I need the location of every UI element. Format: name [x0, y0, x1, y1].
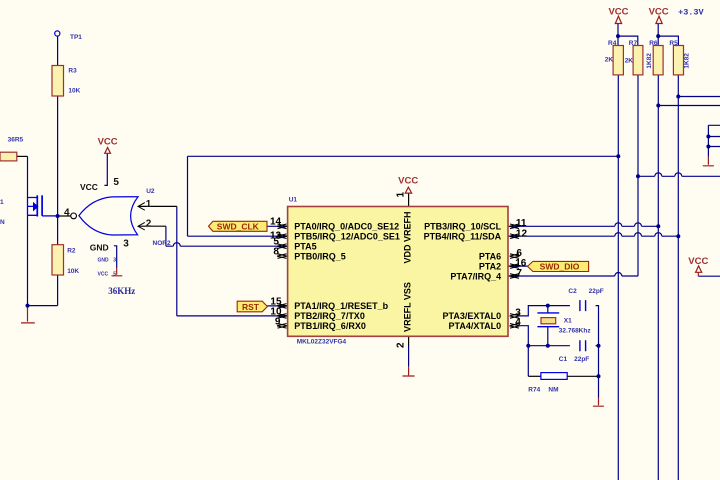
svg-text:PTB2/IRQ_7/TX0: PTB2/IRQ_7/TX0 — [294, 311, 365, 321]
svg-text:PTB1/IRQ_6/RX0: PTB1/IRQ_6/RX0 — [294, 321, 366, 331]
svg-text:RST: RST — [242, 302, 260, 312]
svg-text:C2: C2 — [568, 288, 577, 295]
svg-text:PTB5/IRQ_12/ADC0_SE1: PTB5/IRQ_12/ADC0_SE1 — [294, 232, 400, 242]
svg-text:PTA1/IRQ_1/RESET_b: PTA1/IRQ_1/RESET_b — [294, 301, 388, 311]
svg-text:1K82: 1K82 — [646, 53, 653, 69]
svg-text:PTA5: PTA5 — [294, 242, 316, 252]
svg-text:VCC: VCC — [649, 6, 669, 17]
svg-text:2: 2 — [146, 219, 152, 230]
svg-text:VCC: VCC — [688, 256, 708, 267]
svg-text:GND: GND — [90, 242, 109, 252]
svg-text:22pF: 22pF — [589, 288, 604, 295]
svg-text:1: 1 — [396, 192, 407, 198]
svg-text:7: 7 — [516, 268, 522, 279]
svg-text:PTA3/EXTAL0: PTA3/EXTAL0 — [443, 311, 502, 321]
svg-text:NM: NM — [548, 387, 558, 394]
svg-text:+3.3V: +3.3V — [678, 7, 704, 17]
svg-text:PTA0/IRQ_0/ADC0_SE12: PTA0/IRQ_0/ADC0_SE12 — [294, 222, 399, 232]
svg-text:R74: R74 — [528, 387, 540, 394]
svg-text:SWD_CLK: SWD_CLK — [217, 221, 260, 231]
svg-text:11: 11 — [516, 218, 527, 229]
svg-text:5: 5 — [113, 177, 119, 188]
svg-text:VCC: VCC — [98, 272, 109, 278]
svg-text:VDD VREFH: VDD VREFH — [403, 211, 413, 263]
svg-text:14: 14 — [270, 216, 282, 227]
svg-text:VCC: VCC — [80, 182, 98, 192]
svg-text:22pF: 22pF — [574, 356, 589, 363]
svg-text:2K: 2K — [605, 56, 614, 63]
svg-text:5: 5 — [113, 272, 116, 278]
svg-text:VCC: VCC — [608, 6, 628, 17]
svg-text:NOR2: NOR2 — [153, 240, 171, 247]
svg-text:R7: R7 — [629, 40, 638, 47]
svg-text:R2: R2 — [67, 248, 76, 255]
svg-text:SWD_DIO: SWD_DIO — [540, 262, 580, 272]
svg-text:4: 4 — [64, 208, 70, 219]
svg-text:12: 12 — [516, 228, 528, 239]
svg-text:R5: R5 — [669, 40, 678, 47]
svg-text:R4: R4 — [608, 40, 617, 47]
svg-text:10K: 10K — [67, 268, 79, 275]
svg-text:4: 4 — [515, 317, 521, 328]
svg-text:X1: X1 — [564, 317, 572, 324]
svg-text:1: 1 — [146, 199, 152, 210]
svg-text:3: 3 — [123, 238, 129, 249]
svg-text:N: N — [0, 219, 5, 226]
svg-text:PTB4/IRQ_11/SDA: PTB4/IRQ_11/SDA — [424, 232, 502, 242]
svg-text:PTA6: PTA6 — [479, 251, 501, 261]
svg-text:10K: 10K — [68, 88, 80, 95]
svg-text:VREFL VSS: VREFL VSS — [403, 282, 413, 332]
svg-text:VCC: VCC — [98, 137, 118, 148]
svg-text:2K: 2K — [625, 57, 634, 64]
svg-text:MKL02Z32VFG4: MKL02Z32VFG4 — [297, 339, 347, 346]
svg-text:PTA2: PTA2 — [479, 261, 501, 271]
svg-text:3: 3 — [113, 257, 116, 263]
svg-text:VCC: VCC — [398, 176, 418, 187]
svg-text:TP1: TP1 — [70, 34, 82, 41]
svg-text:8: 8 — [273, 247, 279, 258]
svg-text:U1: U1 — [289, 196, 298, 203]
svg-text:36KHz: 36KHz — [108, 286, 135, 296]
svg-text:1K82: 1K82 — [684, 53, 691, 69]
svg-text:C1: C1 — [559, 356, 568, 363]
svg-text:R6: R6 — [649, 40, 658, 47]
svg-text:GND: GND — [98, 257, 110, 263]
svg-text:PTA7/IRQ_4: PTA7/IRQ_4 — [450, 271, 501, 281]
svg-text:1: 1 — [0, 199, 4, 206]
svg-text:PTB3/IRQ_10/SCL: PTB3/IRQ_10/SCL — [424, 222, 502, 232]
svg-text:9: 9 — [275, 317, 281, 328]
svg-text:36R5: 36R5 — [8, 137, 24, 144]
svg-text:32.768Khz: 32.768Khz — [559, 328, 592, 335]
svg-text:PTB0/IRQ_5: PTB0/IRQ_5 — [294, 251, 346, 261]
svg-text:U2: U2 — [146, 188, 155, 195]
svg-text:2: 2 — [396, 342, 407, 348]
svg-text:PTA4/XTAL0: PTA4/XTAL0 — [449, 321, 502, 331]
svg-text:R3: R3 — [68, 67, 77, 74]
